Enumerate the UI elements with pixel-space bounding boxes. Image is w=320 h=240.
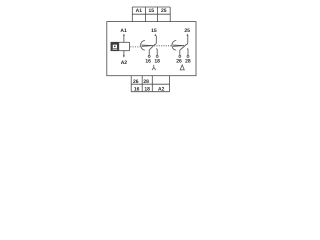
contact 1 fork lower [142,45,153,48]
contact 2 fork upper [173,44,184,47]
terminal arrow A1 (up) [123,34,125,36]
wire 18 with seat curl [156,49,157,56]
main housing outline [107,22,196,76]
coil timer glyph dot [114,46,116,47]
terminal ring 16 [148,55,150,57]
contact 1 fork upper [142,44,153,47]
svg-text:26: 26 [176,58,182,64]
contact 2 lever [180,44,186,50]
bottom strip left side [130,76,132,92]
terminal ring 26 [179,55,181,57]
function symbol under contact 2 (triangle) [180,65,184,70]
top strip row divider [132,13,170,15]
function symbol under contact 1 (inverted Y) [152,65,156,70]
wire A1 to coil [123,36,125,43]
svg-text:18: 18 [154,58,160,64]
svg-text:25: 25 [161,8,167,14]
wire 25 pole [186,36,188,45]
bottom strip bottom edge [131,91,169,93]
terminal ring 18 [156,55,158,57]
svg-text:18: 18 [144,87,150,93]
svg-text:16: 16 [134,87,140,93]
coil K1 outer box [111,42,129,50]
svg-text:A2: A2 [158,87,165,93]
terminal arrow 25 (up) [187,34,189,36]
svg-text:25: 25 [184,28,190,34]
svg-text:A1: A1 [136,8,143,14]
bottom strip row divider [131,83,169,85]
terminal ring 28 [187,55,189,57]
contact 1 lever [149,44,155,49]
svg-text:28: 28 [185,58,191,64]
svg-text:28: 28 [143,79,149,85]
bottom strip separator 2 [151,76,153,92]
svg-text:26: 26 [133,79,139,85]
contact 2 fork lower [173,45,184,48]
mechanical link dashed wire (coil to contact 1) [130,46,140,48]
svg-text:16: 16 [145,58,151,64]
terminal arrow 15 (up) [154,34,156,36]
svg-text:A2: A2 [121,60,128,66]
contact 1 delay arc [141,41,145,51]
top strip left side [131,7,133,22]
top strip top edge [132,6,170,8]
wire 26 [179,50,181,55]
svg-text:15: 15 [151,28,157,34]
wire 28 with seat curl [187,49,188,56]
bottom strip right side [169,76,171,92]
svg-text:15: 15 [149,8,155,14]
contact 2 delay arc [172,41,176,51]
coil timer glyph base bar [113,48,118,51]
wire 16 [148,50,150,56]
coil timer compartment (filled) [111,42,119,50]
wire 15 pole [155,36,157,45]
mechanical link dashed wire (contact 1 to contact 2) [154,45,172,47]
bottom strip separator 1 [141,76,143,92]
coil timer glyph body [113,45,117,48]
top strip cell separator 2 [156,7,158,22]
svg-text:A1: A1 [120,28,127,34]
terminal arrow A2 (down) [123,55,125,57]
top strip right side [169,7,171,22]
wire coil to A2 [123,51,125,56]
top strip cell separator 1 [144,7,146,22]
